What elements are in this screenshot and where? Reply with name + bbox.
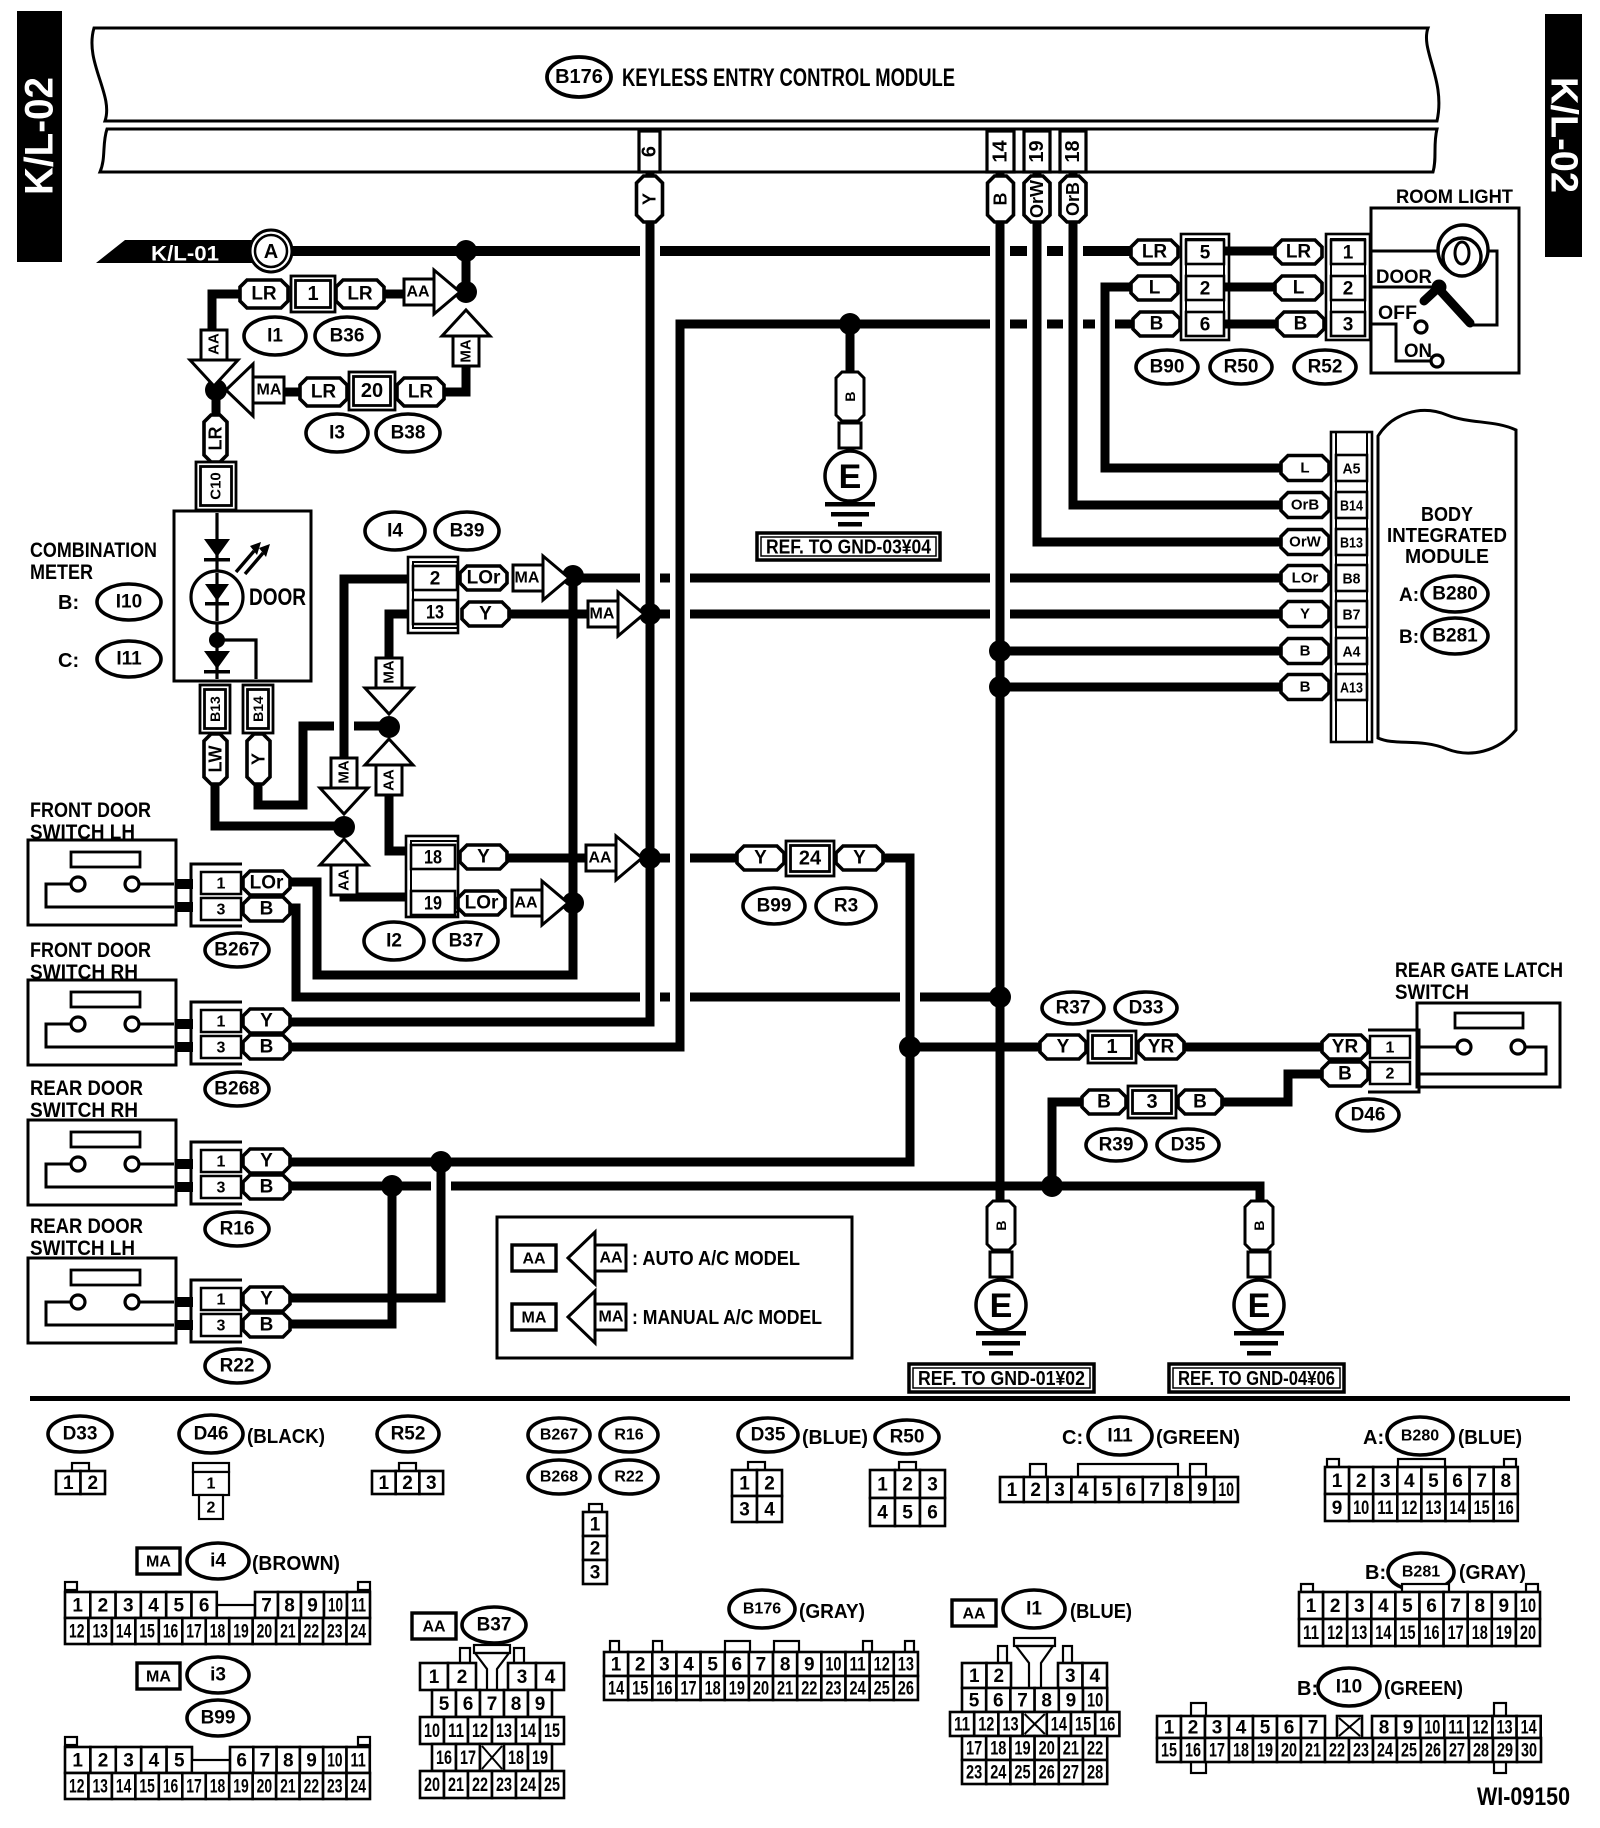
svg-text:Y: Y <box>260 1289 273 1310</box>
wire LR from K/L-01 A to B90 pin 5 <box>290 246 1131 256</box>
wire Y variant riser to I4 pin 13 <box>385 614 394 665</box>
svg-text:8: 8 <box>511 1694 522 1715</box>
svg-text:13: 13 <box>1002 1715 1018 1736</box>
pinout B99 notch <box>192 1760 230 1773</box>
pinout ref B281 <box>1388 1553 1454 1591</box>
connector I2/B37 body <box>406 836 458 917</box>
svg-text:2: 2 <box>1386 1066 1395 1083</box>
svg-text:MA: MA <box>146 1669 171 1686</box>
pinout I11 tab b <box>1078 1464 1178 1477</box>
wire LOr to BIM B8 <box>573 574 1281 583</box>
svg-text:9: 9 <box>1403 1718 1414 1739</box>
pinout B176 tab c <box>725 1641 750 1652</box>
wire L between B90 and R50/R52 <box>1229 283 1275 292</box>
svg-text:ON: ON <box>1404 341 1432 362</box>
svg-text:R37: R37 <box>1056 998 1091 1019</box>
svg-text:MODULE: MODULE <box>1405 546 1489 568</box>
svg-text:12: 12 <box>472 1721 488 1742</box>
legend arrow MA <box>568 1291 626 1343</box>
connector ref I2 <box>364 922 424 960</box>
svg-text:22: 22 <box>304 1622 319 1643</box>
svg-text:R16: R16 <box>614 1427 643 1444</box>
connector B268 pin 1 colour Y <box>243 1009 290 1033</box>
rear door switch LH <box>28 1258 193 1343</box>
pinout B281 tab c <box>1526 1584 1538 1592</box>
connector R22 <box>191 1280 242 1342</box>
pinout ref D46 <box>179 1415 243 1453</box>
svg-text:B38: B38 <box>391 423 426 444</box>
svg-text:30: 30 <box>1521 1741 1537 1762</box>
pinout i4 row2 <box>65 1618 370 1644</box>
svg-text:15: 15 <box>1399 1623 1415 1644</box>
legend arrow AA <box>568 1232 626 1284</box>
pinout B176 row1 <box>604 1652 918 1676</box>
svg-text:D46: D46 <box>1351 1105 1386 1126</box>
svg-text:1: 1 <box>969 1666 980 1687</box>
svg-text:8: 8 <box>1379 1718 1390 1739</box>
pinout i4 row1 right <box>255 1592 370 1618</box>
wire LR drop from A bus to junction <box>462 246 471 292</box>
svg-text:19: 19 <box>233 1777 248 1798</box>
svg-text:8: 8 <box>283 1751 294 1772</box>
module pin 14 <box>987 131 1014 172</box>
svg-text:AA: AA <box>514 895 538 912</box>
svg-text:6: 6 <box>1284 1718 1295 1739</box>
wire LR to I1 connector and AA arrow <box>212 294 240 332</box>
svg-text:5: 5 <box>174 1751 185 1772</box>
svg-text:22: 22 <box>1087 1739 1103 1760</box>
svg-text:B8: B8 <box>1343 571 1361 588</box>
svg-text:MA: MA <box>590 606 615 623</box>
connector B267 pin 1 colour LOr <box>243 871 290 895</box>
svg-text:4: 4 <box>683 1655 694 1676</box>
svg-text:12: 12 <box>978 1715 994 1736</box>
wire colour B at BIM A13 <box>1281 675 1329 700</box>
wire colour Y at R37/D33 pin 1 <box>1040 1035 1086 1059</box>
svg-text:SWITCH: SWITCH <box>1395 981 1469 1004</box>
svg-text:Y: Y <box>1300 606 1310 623</box>
wire to B37 pin 19 left side <box>344 884 406 897</box>
wire crossing gap at 1073,251 <box>1063 244 1083 259</box>
wire crossing gap at 1000,614 <box>990 607 1010 622</box>
pinout ref i3 <box>187 1657 249 1693</box>
svg-text:14: 14 <box>116 1777 132 1798</box>
pinout I11 tab a <box>1030 1464 1046 1477</box>
pinout ref B267 <box>528 1418 590 1452</box>
svg-text:22: 22 <box>472 1775 488 1796</box>
pinout B267 cell 3 <box>583 1560 607 1584</box>
pinout B176 tab b <box>653 1641 662 1652</box>
svg-text:1: 1 <box>1343 243 1354 264</box>
svg-text:MA: MA <box>599 1309 624 1326</box>
svg-text:I11: I11 <box>116 649 142 670</box>
ref to GND-03/04 <box>757 533 940 560</box>
junction B net at A4 wire <box>989 640 1011 662</box>
junction LR bus <box>455 240 477 262</box>
meter pin B14 <box>243 685 273 733</box>
pinout B176 tab d <box>774 1641 799 1652</box>
svg-text:MA: MA <box>515 570 540 587</box>
rear door switch RH <box>28 1120 193 1205</box>
wire Y from R3 down to rear switches <box>882 858 910 1162</box>
wire Y from module pin 6 down to front door switch RH <box>290 172 650 1022</box>
svg-text:1: 1 <box>63 1473 74 1494</box>
svg-text:C10: C10 <box>208 472 225 500</box>
svg-text:Y: Y <box>249 753 269 765</box>
svg-text:B: B <box>260 1315 274 1336</box>
wire I4 pin 13 left lead <box>389 610 408 619</box>
svg-text:KEYLESS ENTRY CONTROL MODULE: KEYLESS ENTRY CONTROL MODULE <box>622 64 955 92</box>
BIM pin B8 cell <box>1336 565 1367 591</box>
svg-text:B37: B37 <box>477 1615 512 1636</box>
connector B37 pin 18 cell <box>411 845 455 869</box>
wire Y from I4 pin 13 to MA arrow <box>508 610 588 619</box>
svg-text:2: 2 <box>1343 279 1354 300</box>
svg-text:REF. TO GND-01¥02: REF. TO GND-01¥02 <box>918 1368 1085 1390</box>
variant arrow AA at B37 pin 19 <box>512 881 568 925</box>
svg-text:I4: I4 <box>387 521 403 542</box>
svg-text:19: 19 <box>729 1679 745 1700</box>
pinout B99 row1 left <box>65 1747 192 1773</box>
svg-text:REAR GATE LATCH: REAR GATE LATCH <box>1395 959 1563 982</box>
meter door lamp LED <box>191 542 270 623</box>
svg-text:R22: R22 <box>614 1469 643 1486</box>
svg-text:AA: AA <box>962 1606 986 1623</box>
svg-text:E: E <box>1248 1287 1271 1325</box>
svg-text:1: 1 <box>72 1596 83 1617</box>
wire colour Y right of B99 pin 24 <box>836 846 883 870</box>
svg-text:9: 9 <box>307 1596 318 1617</box>
wire OrB from module pin 18 to BIM B14 <box>1073 172 1281 505</box>
connector ref B39 <box>435 512 499 550</box>
pinout ref D33 <box>48 1416 112 1452</box>
svg-text:8: 8 <box>1500 1471 1511 1492</box>
svg-text:I10: I10 <box>116 592 142 613</box>
svg-text:12: 12 <box>1327 1623 1343 1644</box>
svg-text:26: 26 <box>898 1679 914 1700</box>
svg-text:7: 7 <box>1017 1691 1028 1712</box>
pinout ref R16 <box>600 1418 658 1452</box>
svg-text:B14: B14 <box>1340 498 1364 515</box>
wire B from rear door switch LH R22 pin 3 <box>290 1186 392 1324</box>
svg-text:1: 1 <box>379 1473 390 1494</box>
svg-text:i4: i4 <box>210 1551 226 1572</box>
room light ON contact <box>1431 355 1443 367</box>
wire OrW from module pin 19 to BIM B13 <box>1037 172 1281 542</box>
svg-text:20: 20 <box>361 380 383 402</box>
wire crossing gap at 1105,324 <box>1095 317 1115 332</box>
svg-text:12: 12 <box>69 1777 84 1798</box>
svg-text:18: 18 <box>424 848 442 869</box>
svg-text:Y: Y <box>477 847 490 868</box>
connector ref I11 <box>97 641 161 677</box>
svg-text:B: B <box>1251 1220 1267 1230</box>
pinout MA i4 symbol <box>137 1548 180 1574</box>
pinout B176 row2 <box>604 1676 918 1700</box>
connector R52 pin 2 cell <box>1331 276 1365 300</box>
wire L from B90 pin 2 to BIM A5 <box>1105 287 1281 468</box>
svg-text:18: 18 <box>508 1748 524 1769</box>
svg-text:2: 2 <box>1330 1596 1341 1617</box>
svg-text:5: 5 <box>969 1691 980 1712</box>
svg-text:26: 26 <box>1425 1741 1441 1762</box>
svg-text:20: 20 <box>1520 1623 1536 1644</box>
svg-text:21: 21 <box>1305 1741 1321 1762</box>
pinout I1 row3 <box>950 1712 1119 1736</box>
svg-text:17: 17 <box>680 1679 696 1700</box>
svg-text:B99: B99 <box>201 1708 236 1729</box>
svg-text:20: 20 <box>424 1775 440 1796</box>
pinout I10 row1 right <box>1372 1716 1541 1739</box>
wire colour LOr at I4 pin 2 <box>460 566 507 590</box>
svg-text:FRONT DOOR: FRONT DOOR <box>30 939 151 962</box>
svg-text:AA: AA <box>522 1251 546 1268</box>
pinout I1 row5 <box>962 1760 1107 1784</box>
svg-text:7: 7 <box>487 1694 498 1715</box>
svg-text:4: 4 <box>1404 1471 1415 1492</box>
svg-text:K/L-01: K/L-01 <box>151 243 219 266</box>
svg-text:17: 17 <box>186 1622 201 1643</box>
wire crossing gap at 680,997 <box>670 990 690 1005</box>
svg-text:7: 7 <box>1308 1718 1319 1739</box>
svg-text:REF. TO GND-03¥04: REF. TO GND-03¥04 <box>766 537 932 559</box>
wire colour LR above C10 <box>204 415 227 462</box>
svg-text:MA: MA <box>458 339 475 362</box>
svg-text:15: 15 <box>1474 1498 1490 1519</box>
pinout R52 tab <box>399 1463 416 1472</box>
module pin 18 colour OrB <box>1060 176 1086 222</box>
wire Y from junction to R37/D33 pin 1 <box>910 1043 1040 1052</box>
svg-text:3: 3 <box>1054 1480 1065 1501</box>
svg-text:13: 13 <box>92 1622 107 1643</box>
svg-text:Y: Y <box>754 848 767 869</box>
connector R22 pin 3 colour B <box>243 1313 290 1337</box>
svg-text:5: 5 <box>902 1503 913 1524</box>
junction LR meter drop <box>205 379 227 401</box>
pinout ref B176 table <box>729 1590 795 1628</box>
svg-text:LR: LR <box>206 427 226 451</box>
svg-text:19: 19 <box>1026 140 1048 162</box>
svg-text:8: 8 <box>1173 1480 1184 1501</box>
combination meter box <box>174 511 311 681</box>
wire LW from meter B13 to variant junction <box>215 783 340 826</box>
svg-text:4: 4 <box>1236 1718 1247 1739</box>
wire B from B267 pin 3 to main B wire <box>290 908 1000 997</box>
connector B99/R3 pin 24 <box>786 841 834 876</box>
svg-text:R16: R16 <box>220 1219 255 1240</box>
wire colour Y at B37 pin 18 <box>460 845 507 869</box>
svg-text:D33: D33 <box>63 1424 98 1445</box>
svg-text:11: 11 <box>351 1596 366 1617</box>
svg-text:4: 4 <box>545 1667 556 1688</box>
svg-text:LR: LR <box>311 382 337 403</box>
pinout i4 row1 left <box>65 1592 217 1618</box>
svg-text:21: 21 <box>280 1777 296 1798</box>
K/L-01 reference banner <box>96 240 290 266</box>
svg-text:14: 14 <box>1521 1718 1537 1739</box>
svg-text:9: 9 <box>1066 1691 1077 1712</box>
wire colour LR at R52 pin 1 <box>1275 240 1322 264</box>
connector ref R52 <box>1294 350 1356 384</box>
svg-text:1: 1 <box>877 1475 888 1496</box>
svg-text:R3: R3 <box>834 896 858 917</box>
connector ref B281 <box>1422 618 1488 654</box>
svg-text:AA: AA <box>406 284 430 301</box>
connector R52 pin 1 cell <box>1331 240 1365 264</box>
svg-text:26: 26 <box>1039 1763 1055 1784</box>
connector ref B99 <box>743 888 805 924</box>
pinout ref I10 table <box>1318 1668 1380 1706</box>
ref to GND-01/02 <box>909 1364 1094 1392</box>
wire colour YR at rear gate latch pin 1 <box>1322 1035 1368 1059</box>
svg-text:1: 1 <box>217 1154 226 1171</box>
svg-text:17: 17 <box>460 1748 476 1769</box>
pinout I10 tab bottom a <box>1191 1760 1206 1773</box>
variant arrow AA at B37 pin 18 <box>586 836 642 880</box>
svg-text:1: 1 <box>72 1751 83 1772</box>
svg-text:1: 1 <box>1306 1596 1317 1617</box>
svg-text:R52: R52 <box>1308 357 1343 378</box>
svg-text:16: 16 <box>163 1777 178 1798</box>
svg-text:24: 24 <box>850 1679 866 1700</box>
connector R16 pin 1 colour Y <box>243 1149 290 1173</box>
wire B to BIM A4 <box>1000 647 1281 656</box>
variant arrow MA left to junction <box>226 364 284 416</box>
room light DOOR contact <box>1432 280 1447 295</box>
svg-text:1: 1 <box>307 283 318 305</box>
pinout I10 row2 <box>1157 1738 1541 1762</box>
svg-text:A4: A4 <box>1343 644 1362 661</box>
svg-text:E: E <box>990 1287 1013 1325</box>
svg-text:B13: B13 <box>1340 535 1363 552</box>
svg-text:1: 1 <box>217 1292 226 1309</box>
svg-text:13: 13 <box>1351 1623 1367 1644</box>
svg-text:9: 9 <box>1197 1480 1208 1501</box>
svg-text:Y: Y <box>260 1011 273 1032</box>
svg-text:23: 23 <box>825 1679 841 1700</box>
svg-text:OrB: OrB <box>1063 182 1083 216</box>
svg-text:: AUTO A/C MODEL: : AUTO A/C MODEL <box>632 1248 800 1270</box>
wire Y from B37 pin 18 to AA arrow <box>506 854 586 863</box>
wire crossing gap at 1000,578 <box>990 571 1010 586</box>
svg-text:DOOR: DOOR <box>249 584 306 611</box>
svg-text:6: 6 <box>463 1694 474 1715</box>
svg-text:B90: B90 <box>1150 357 1185 378</box>
svg-text:A13: A13 <box>1340 680 1363 697</box>
svg-text:25: 25 <box>1401 1741 1417 1762</box>
connector ref B267 <box>205 933 269 967</box>
svg-text:21: 21 <box>1063 1739 1080 1760</box>
wire crossing gap at 1000,251 <box>990 244 1010 259</box>
connector I4/B39 body <box>408 557 458 633</box>
svg-text:2: 2 <box>1200 279 1211 300</box>
svg-text:I10: I10 <box>1336 1677 1362 1698</box>
svg-text:17: 17 <box>966 1739 982 1760</box>
variant arrow MA at I4 pin 13 <box>588 592 644 636</box>
BIM pin A4 cell <box>1336 638 1367 664</box>
svg-text:3: 3 <box>659 1655 670 1676</box>
variant arrow AA up from B37-19 lead <box>320 839 368 895</box>
wire B from R39/D35 down to ground line <box>1052 1102 1082 1186</box>
meter pin B13 <box>200 685 230 733</box>
svg-text:15: 15 <box>1161 1741 1177 1762</box>
pinout ref R52 <box>377 1416 439 1452</box>
svg-text:1: 1 <box>1164 1718 1175 1739</box>
svg-text:19: 19 <box>1014 1739 1030 1760</box>
connector ref R39 <box>1086 1129 1146 1161</box>
svg-text:i3: i3 <box>210 1665 226 1686</box>
svg-text:B99: B99 <box>757 896 792 917</box>
svg-text:13: 13 <box>1497 1718 1513 1739</box>
svg-text:FRONT DOOR: FRONT DOOR <box>30 799 151 822</box>
svg-text:METER: METER <box>30 561 93 584</box>
svg-text:(BLUE): (BLUE) <box>1458 1427 1522 1449</box>
pinout B37 row5 <box>420 1771 564 1798</box>
wire colour LW under B13 <box>204 734 227 784</box>
svg-text:I11: I11 <box>1107 1426 1133 1447</box>
pinout B280 row1 <box>1325 1467 1518 1494</box>
svg-text:LR: LR <box>1142 242 1168 263</box>
wire crossing gap at 441,1186 <box>431 1179 451 1194</box>
pinout I1 row1 right <box>1058 1663 1107 1688</box>
wire colour L at BIM A5 <box>1281 456 1329 481</box>
variant arrow MA down to LW junction <box>320 758 368 814</box>
connector ref D33 <box>1115 992 1177 1024</box>
svg-text:B:: B: <box>58 592 79 614</box>
svg-text:E: E <box>839 458 862 496</box>
svg-text:14: 14 <box>1375 1623 1391 1644</box>
svg-text:B: B <box>260 1037 274 1058</box>
module pin 18 <box>1060 131 1086 172</box>
room light ON wire <box>1371 324 1430 361</box>
svg-text:AA: AA <box>599 1250 623 1267</box>
svg-text:16: 16 <box>1185 1741 1201 1762</box>
svg-text:1: 1 <box>590 1515 601 1536</box>
wire Y from rear door switch RH R16 pin 1 <box>290 1158 910 1167</box>
connector R37/D33 pin 1 <box>1088 1031 1136 1063</box>
pinout I1 funnel <box>998 1638 1072 1688</box>
svg-text:A:: A: <box>1363 1427 1384 1449</box>
pinout B37 row3 <box>420 1717 564 1744</box>
svg-text:22: 22 <box>801 1679 817 1700</box>
svg-text:BODY: BODY <box>1421 504 1474 526</box>
room light switch lever <box>1424 288 1470 323</box>
wire LR between B90 and R50/R52 <box>1229 247 1275 256</box>
pinout R50 tab <box>899 1462 916 1471</box>
connector ref R50 <box>1210 350 1272 384</box>
wire crossing gap at 1037,251 <box>1027 244 1047 259</box>
module pin 6 colour Y <box>637 176 663 222</box>
pinout AA I1 symbol <box>952 1600 996 1626</box>
svg-text:2: 2 <box>635 1655 646 1676</box>
pinout I1 row4 <box>962 1736 1107 1760</box>
svg-text:MA: MA <box>257 382 282 399</box>
pinout B281 row1 <box>1299 1592 1540 1619</box>
connector B90 pin 2 cell <box>1186 276 1224 300</box>
wire B from front door switch RH B268 pin 3 up to B90 pin 6 <box>290 324 1133 1047</box>
wire crossing gap at 650,251 <box>640 244 660 259</box>
svg-text:(GREEN): (GREEN) <box>1384 1678 1463 1700</box>
wire LR between B36 and AA arrow <box>383 290 408 299</box>
pinout I10 X cell <box>1337 1716 1362 1738</box>
svg-text:14: 14 <box>608 1679 624 1700</box>
svg-text:13: 13 <box>898 1655 914 1676</box>
wire colour Y left of B99 pin 24 <box>737 846 784 870</box>
pinout B280 tab a <box>1327 1459 1339 1467</box>
svg-text:2: 2 <box>1356 1471 1367 1492</box>
svg-text:2: 2 <box>1188 1718 1199 1739</box>
svg-text:10: 10 <box>1087 1691 1103 1712</box>
